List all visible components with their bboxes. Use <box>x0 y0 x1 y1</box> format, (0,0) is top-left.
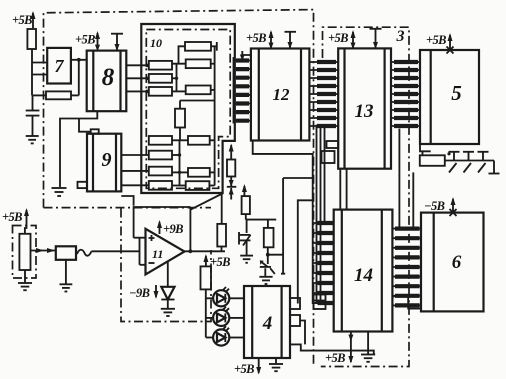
resistor 10.R5 <box>188 168 210 177</box>
svg-text:+5В: +5В <box>2 210 22 224</box>
bus A (matrix 10 to block 12) <box>234 57 251 124</box>
svg-text:−5В: −5В <box>424 199 445 213</box>
+9V label <box>157 220 183 236</box>
svg-text:10: 10 <box>150 36 162 50</box>
resistor R4 at op-amp output <box>217 194 226 252</box>
measuring point arrows right of matrix 10 <box>227 144 237 200</box>
svg-text:9: 9 <box>102 149 112 171</box>
svg-text:11: 11 <box>152 247 163 261</box>
+5V entry below block 14 <box>325 332 353 366</box>
+5V label above block 8 <box>75 31 100 52</box>
matrix 10 resistors, left column <box>149 61 172 190</box>
block 4 <box>244 286 300 358</box>
resistor R5 <box>242 196 250 220</box>
matrix 10 right-side vertical rails <box>214 46 216 185</box>
resistor 10.L4 <box>149 136 172 145</box>
vertical rail right of block 13 down to bus E <box>398 129 400 229</box>
potentiometer shield enclosure (dash-dot) <box>13 226 37 279</box>
wires block 8 to block 9 and ground <box>60 111 97 187</box>
wire below block 12 to rails <box>253 141 313 305</box>
matrix 10 internal wires <box>172 42 217 186</box>
thermo contact Q2 above block 4 <box>260 255 275 277</box>
resistor 10.R4 <box>188 136 210 145</box>
transistor Q5 below block 5 <box>478 152 489 173</box>
+5V label at LED resistor <box>203 254 230 269</box>
ground below diode VD1 <box>161 309 175 316</box>
svg-text:8: 8 <box>102 64 115 91</box>
resistor 10.L3 <box>149 87 172 96</box>
svg-text:+5В: +5В <box>328 31 348 45</box>
resistor 10.L5 <box>149 151 172 160</box>
ground below input box <box>60 284 73 291</box>
svg-text:14: 14 <box>354 265 373 286</box>
wires block 9 to matrix 10 <box>121 155 149 185</box>
block 13 <box>322 48 392 168</box>
wire R5 bottom rail <box>246 219 276 221</box>
capacitor-tie symbol above block 8 <box>111 34 123 51</box>
LED VD2 <box>206 287 244 306</box>
wire R1 to block 7 <box>32 49 47 95</box>
-5V label above block 6 <box>424 197 457 216</box>
svg-text:7: 7 <box>55 56 65 76</box>
op-amp shield enclosure (dash-dot) <box>121 209 211 322</box>
transistor Q1 <box>239 220 251 256</box>
svg-text:4: 4 <box>262 313 273 334</box>
bus B (block 12 to block 13) <box>309 58 338 128</box>
wiper arrow to input box <box>31 248 56 253</box>
+5V label above block 12 <box>246 30 274 50</box>
capacitor-tie symbol above block 13 <box>370 29 382 49</box>
svg-text:−9В: −9В <box>129 286 150 300</box>
wire junction R6 to rail <box>268 178 285 274</box>
svg-text:6: 6 <box>452 252 462 273</box>
ground below block 14 <box>361 332 375 362</box>
block 7 <box>47 48 71 84</box>
diode VD1 below op-amp <box>161 262 174 309</box>
svg-text:12: 12 <box>273 85 291 104</box>
diagonal feedback wire to matrix 10 <box>190 194 222 210</box>
input transducer box <box>56 246 76 284</box>
resistor 10.L2 <box>149 74 172 83</box>
block 10 (resistor matrix) outer box <box>141 24 235 193</box>
matrix 10 resistors, right column <box>185 42 211 190</box>
bus D (rails to block 14) <box>314 223 334 303</box>
wire squiggle to op-amp input <box>91 250 139 252</box>
svg-text:+5В: +5В <box>12 13 32 27</box>
arrow-wire at block 12 left top <box>240 51 251 61</box>
resistor 10.L7 <box>149 181 172 190</box>
+5V entry below block 4 <box>234 358 261 376</box>
svg-text:+5В: +5В <box>246 31 266 45</box>
matrix 10 middle vertical resistor <box>175 109 185 128</box>
wire block7 to block8 <box>71 58 87 96</box>
svg-text:+9В: +9В <box>163 222 183 236</box>
connector tabs on rails <box>314 295 326 310</box>
wires block 8 to matrix 10 <box>126 64 149 94</box>
block 9 <box>78 129 122 191</box>
wire below block 14 right to block 6 bottom <box>392 296 421 308</box>
op-amp output wire <box>185 207 226 253</box>
svg-text:+5В: +5В <box>75 33 95 47</box>
svg-text:5: 5 <box>451 81 462 105</box>
+5V supply label top-left <box>12 11 36 28</box>
capacitor-tie symbol above block 12 <box>285 32 297 49</box>
resistor 10.R6 <box>186 181 210 190</box>
svg-text:+5В: +5В <box>234 362 254 376</box>
wire rail to bus <box>283 177 313 179</box>
resistor R7 for LEDs <box>201 266 212 337</box>
resistor R1 top-left <box>27 29 36 49</box>
resistor 10.R2 <box>186 59 211 68</box>
block 14 <box>334 210 393 332</box>
+5V label above block 5 <box>426 33 454 54</box>
feedback wire to + input <box>121 196 190 238</box>
ground below potentiometer <box>18 283 32 290</box>
bus C (block 13 to block 5) <box>391 62 420 126</box>
svg-text:3: 3 <box>396 28 405 45</box>
end terminal below block 5 <box>489 161 500 174</box>
resistor 10.R1 <box>185 42 211 51</box>
wires from block 13 bottom into block 14 <box>340 169 346 210</box>
wire from block 5 area down to block 6 area <box>412 172 414 228</box>
ground below block 4 <box>269 358 283 371</box>
transistor Q4 below block 5 <box>463 152 474 173</box>
enclosure 3 (dash-dot) <box>321 27 409 366</box>
resistor R8 below block 5 <box>420 144 494 166</box>
measuring arrow above resistor R5 <box>242 184 247 196</box>
svg-text:+5В: +5В <box>210 255 230 269</box>
wire from block 4 tab to rails <box>298 200 313 303</box>
+5V label above potentiometer <box>2 208 29 234</box>
vertical rails between buses B and D <box>317 125 325 304</box>
LED VD3 <box>206 307 244 326</box>
shield enclosure left (dash-dot) <box>44 10 314 367</box>
-9V label <box>129 285 159 300</box>
block 12 <box>251 49 310 141</box>
block 5 <box>420 50 479 144</box>
capacitor C1 <box>26 95 40 136</box>
op-amp input bar and stubs <box>140 237 146 264</box>
LED VD4 <box>206 326 244 345</box>
resistor 10.R3 <box>186 86 211 95</box>
svg-text:13: 13 <box>355 101 374 122</box>
resistor 10.L6 <box>149 167 172 176</box>
resistor R2 below block 7 <box>33 91 79 99</box>
ground below Q1 <box>240 256 253 263</box>
ground for C1 <box>26 136 39 143</box>
resistor 10.L1 <box>149 61 172 70</box>
op-amp U11 <box>146 229 185 275</box>
block 8 <box>87 51 127 112</box>
ground below Q2 <box>259 277 272 284</box>
potentiometer R3 <box>19 234 30 283</box>
wire from block 4 lower tab to ground rail <box>290 321 374 355</box>
svg-text:+5В: +5В <box>426 33 446 47</box>
resistor R6 <box>264 220 274 257</box>
signal squiggle <box>77 250 91 256</box>
bus E (block 14 to block 6) <box>392 229 421 306</box>
block 6 <box>421 213 484 312</box>
transistor Q3 below block 5 <box>447 152 459 173</box>
ground below block 8 wire <box>52 188 67 196</box>
+5V label above block 13 <box>328 30 356 49</box>
svg-text:+5В: +5В <box>325 351 345 365</box>
